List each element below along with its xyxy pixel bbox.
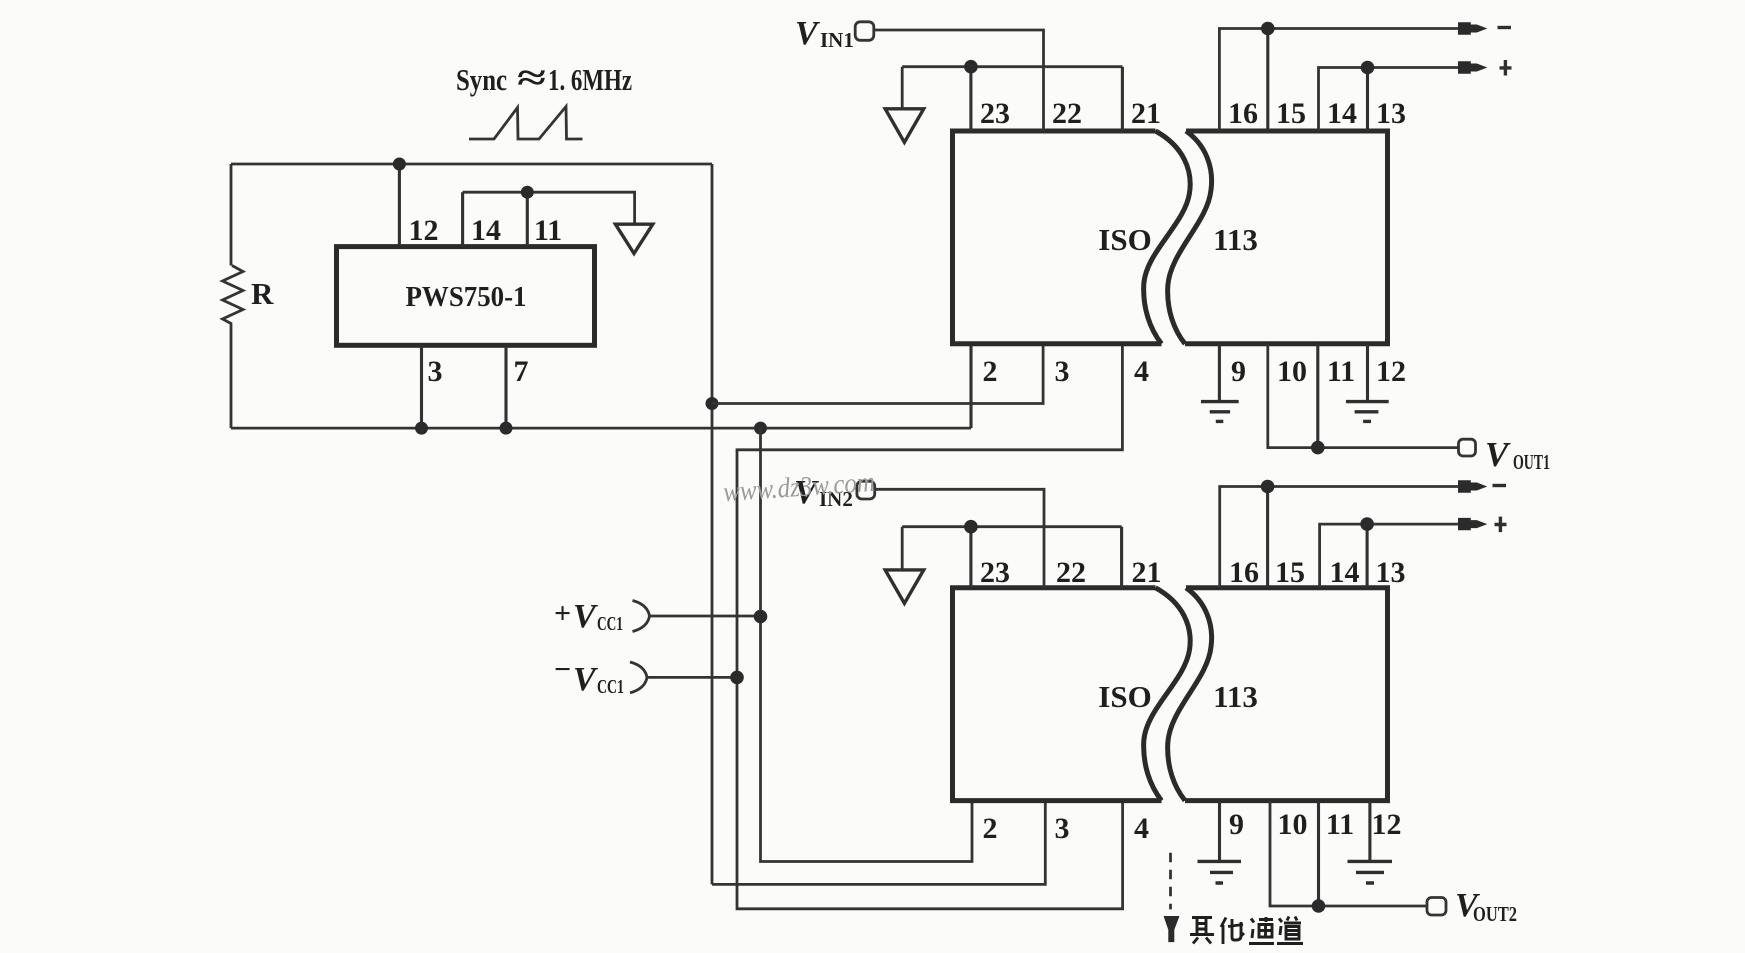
other-channels solid arrow (1164, 916, 1180, 942)
U2 pin 21 lead (1121, 67, 1124, 131)
wire: VIN1 to U2 pin 22 (874, 30, 1044, 131)
PWS750-1 pin 14 lead (461, 192, 464, 246)
ground stem (input common 2) (901, 527, 904, 570)
resistor R (223, 266, 244, 325)
wire: bottom bus (+Vcc rail, PWS to ISO1 pin 2) (231, 427, 971, 430)
ground (input common 1, open triangle) (885, 109, 924, 143)
svg-text:21: 21 (1132, 556, 1162, 589)
svg-text:CC1: CC1 (597, 676, 624, 698)
svg-text:≈: ≈ (517, 58, 546, 99)
wire: U2 pin 14 up to plus output (1319, 68, 1460, 132)
svg-text:OUT2: OUT2 (1473, 902, 1517, 926)
junction: pin 23 on ground bus (964, 60, 978, 74)
junction: pin 23 on ground bus 2 (964, 520, 978, 534)
svg-text:4: 4 (1134, 812, 1149, 845)
svg-text:23: 23 (980, 556, 1010, 589)
wire: input ground bus (pins 23 to 21) (902, 65, 1122, 68)
svg-text:14: 14 (471, 214, 501, 247)
U2 pin 13 lead (1366, 68, 1369, 132)
svg-text:V: V (795, 15, 820, 52)
svg-text:13: 13 (1376, 556, 1406, 589)
PWS750-1 pin 11 lead (526, 192, 529, 246)
minus output arrow (1) (1458, 22, 1487, 34)
wire: left loop vertical (resistor branch) (230, 164, 233, 428)
junction: pin 11 on ground link (521, 186, 534, 199)
junction: pin 7 on bottom bus (500, 422, 513, 435)
svg-text:ISO: ISO (1098, 679, 1151, 714)
dashed stub: other channels (1169, 853, 1172, 910)
U2 pin 15 lead (1266, 29, 1269, 132)
U2 pin 23 lead (969, 67, 972, 131)
svg-text:10: 10 (1277, 355, 1307, 388)
wire: node A horizontal to ISO 113 (2) pin 3 (712, 801, 1045, 885)
ground stem (input common 1) (901, 67, 904, 109)
junction: pin 11 on VOUT1 wire (1311, 441, 1325, 455)
svg-text:CC1: CC1 (597, 613, 623, 635)
svg-text:www.dz3w.com: www.dz3w.com (722, 467, 876, 509)
VIN2 terminal (857, 481, 875, 499)
svg-text:V: V (1485, 435, 1511, 474)
svg-text:3: 3 (1055, 812, 1070, 845)
U3 isolation barrier curve (left) (1144, 588, 1191, 801)
U3 isolation barrier curve (right) (1168, 588, 1212, 801)
svg-text:1. 6MHz: 1. 6MHz (548, 62, 632, 97)
+Vcc1 input chevron terminal (633, 601, 650, 632)
minus polarity mark (1) (1498, 26, 1512, 29)
U3 pin 11 lead (1317, 801, 1320, 906)
U3 pin 23 lead (969, 527, 972, 588)
svg-text:10: 10 (1278, 808, 1308, 841)
svg-text:2: 2 (983, 355, 998, 388)
svg-text:23: 23 (980, 97, 1010, 130)
junction: +Vcc tap on bottom bus (node C) (754, 422, 767, 435)
svg-text:PWS750-1: PWS750-1 (406, 281, 527, 313)
svg-text:+: + (554, 597, 571, 630)
junction: pin 12 on sync bus (393, 158, 406, 171)
svg-text:113: 113 (1213, 222, 1258, 257)
svg-text:11: 11 (534, 214, 562, 247)
wire: U3 pin 10 down to VOUT2 (1270, 801, 1427, 906)
svg-text:V: V (573, 661, 598, 698)
junction: pin 11 on VOUT2 wire (1312, 899, 1326, 913)
junction: -Vcc1 joins node B (730, 671, 744, 685)
minus output arrow (2) (1458, 480, 1487, 492)
svg-text:9: 9 (1229, 808, 1244, 841)
svg-text:3: 3 (428, 355, 443, 388)
wire: U2 pin 16 up to minus output (1219, 29, 1459, 132)
U3 pin 21 lead (1120, 527, 1123, 588)
ground (U2 pin 9, 3-bar) (1201, 402, 1239, 422)
isolation amplifier U2 ISO113 (1): left input box (953, 131, 1162, 344)
svg-text:11: 11 (1326, 808, 1354, 841)
wire: ISO 113 (1) pin 3 down and left to node A (712, 344, 1043, 404)
svg-text:4: 4 (1134, 355, 1149, 388)
svg-text:IN1: IN1 (820, 28, 854, 52)
ground (PWS750-1 pins 14/11) (615, 224, 652, 253)
U3 pin 13 lead (1366, 524, 1369, 588)
-Vcc1 input chevron terminal (630, 662, 647, 693)
minus polarity mark (2) (1493, 484, 1507, 487)
wire: +Vcc1 lead to node C (650, 615, 761, 618)
svg-text:16: 16 (1228, 97, 1258, 130)
svg-text:22: 22 (1056, 556, 1086, 589)
plus polarity mark (2) (1495, 517, 1507, 533)
PWS750-1 pin 3 lead (420, 345, 423, 428)
VOUT1 terminal (1459, 439, 1476, 456)
other-channels caption (CJK strokes) (1190, 917, 1303, 945)
wire: ISO1 pin 4 down to node B, -Vcc1 rail down to ISO 113 (2) pin 4 (737, 344, 1123, 909)
svg-text:12: 12 (409, 214, 439, 247)
svg-text:9: 9 (1231, 355, 1246, 388)
svg-text:R: R (251, 276, 274, 311)
sawtooth waveform (469, 107, 583, 140)
wire: pin14-pin11 ground link with stem (463, 192, 635, 224)
U3 pin 15 lead (1266, 487, 1269, 588)
U2 pin 11 lead (1316, 344, 1319, 448)
junction: node A tap to ISO1 pin 3 (706, 397, 719, 410)
VOUT2 terminal (1427, 898, 1446, 916)
U3 pin 12 lead (1368, 801, 1371, 860)
ground (U3 pin 12, 3-bar) (1348, 861, 1393, 883)
svg-text:Sync: Sync (456, 62, 507, 97)
VIN1 terminal (855, 22, 874, 41)
svg-text:16: 16 (1229, 556, 1259, 589)
junction: pin 3 on bottom bus (415, 422, 428, 435)
plus output arrow (2) (1458, 518, 1487, 530)
wire: U3 pin 14 up to plus output (1320, 524, 1459, 588)
svg-text:14: 14 (1327, 97, 1357, 130)
svg-text:113: 113 (1213, 679, 1258, 714)
svg-text:14: 14 (1330, 556, 1360, 589)
svg-text:13: 13 (1376, 97, 1406, 130)
svg-text:OUT1: OUT1 (1513, 450, 1550, 474)
wire: VIN2 to U3 pin 22 (875, 489, 1045, 588)
svg-text:V: V (573, 598, 598, 635)
PWS750-1 box U1 (337, 247, 595, 346)
svg-text:15: 15 (1275, 556, 1305, 589)
U3 pin 9 lead (1218, 801, 1221, 860)
plus polarity mark (1) (1500, 60, 1512, 76)
wire: sync bus from R loop top to node A (231, 163, 712, 166)
junction: pin 15 on minus output 2 (1261, 480, 1275, 494)
ISO 113 (1) pin 2 lead (969, 344, 972, 428)
svg-text:12: 12 (1372, 808, 1402, 841)
PWS750-1 pin 7 lead (504, 345, 507, 428)
wire: U2 pin 10 down to VOUT1 (1268, 344, 1459, 448)
wire: -Vcc1 lead to node B (648, 676, 737, 679)
wire: input ground bus 2 (pins 23 to 21) (902, 525, 1121, 528)
isolation amplifier U3 ISO113 (2): left input box (953, 588, 1162, 801)
U2 isolation barrier curve (left) (1144, 131, 1191, 344)
wire: U3 pin 16 up to minus output (1220, 487, 1459, 588)
junction: +Vcc1 joins node C (754, 610, 768, 624)
ground (U3 pin 9, 3-bar) (1198, 861, 1242, 883)
wire: node C vertical, +Vcc1 rail down to ISO 113 (2) pin 2 (761, 428, 973, 861)
svg-text:11: 11 (1327, 355, 1355, 388)
junction: pin 13 on plus output 2 (1360, 517, 1374, 531)
junction: pin 15 on minus output (1261, 22, 1275, 36)
svg-text:2: 2 (983, 812, 998, 845)
U2 isolation barrier curve (right) (1168, 131, 1212, 344)
ground (input common 2, open triangle) (885, 570, 924, 604)
U2 pin 9 lead (1218, 344, 1221, 400)
wire: node A vertical from sync bus down to ISO2 pin3 row (711, 164, 714, 884)
U2 pin 12 lead (1366, 344, 1369, 400)
svg-text:−: − (554, 653, 571, 686)
svg-text:7: 7 (514, 355, 529, 388)
svg-text:22: 22 (1052, 97, 1082, 130)
junction: pin 13 on plus output (1361, 61, 1375, 75)
svg-text:21: 21 (1131, 97, 1161, 130)
ground (U2 pin 12, 3-bar) (1346, 402, 1389, 422)
U3 right output box (1185, 588, 1388, 801)
svg-text:ISO: ISO (1098, 222, 1151, 257)
U2 right output box (1185, 131, 1388, 344)
svg-text:15: 15 (1276, 97, 1306, 130)
svg-text:3: 3 (1055, 355, 1070, 388)
plus output arrow (1) (1458, 61, 1487, 73)
PWS750-1 pin 12 lead (398, 164, 401, 247)
svg-text:12: 12 (1376, 355, 1406, 388)
